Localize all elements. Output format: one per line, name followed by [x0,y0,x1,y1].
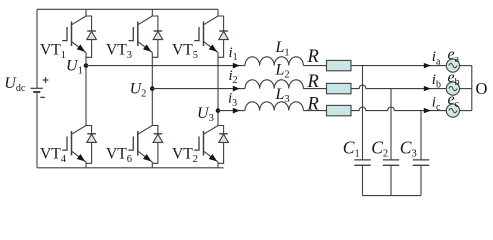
wire: capacitor C1 branch lower [362,165,364,195]
AC source e (phase 1) circle [446,59,459,72]
wire: phase line 2 resistor to source (hops over capacitor branches) [351,85,446,89]
transistor VT6: collector stub [152,126,158,164]
transistor VT1: body bar [71,22,73,47]
wire: capacitor C3 branch upper [420,111,422,160]
wire: DC negative rail (bottom) [37,167,224,169]
transistor VT3: collector diagonal [138,16,153,25]
transistor VT4: gate bar and lead [62,137,67,151]
wire: neutral bus O vertical [471,66,473,111]
transistor VT6: body bar [137,131,139,156]
AC source sine glyph [449,86,457,90]
transistor VT2: body bar [203,131,205,156]
svg-text:R: R [307,47,319,67]
inductor L2 [245,80,303,89]
resistor R (phase 1) [327,60,352,70]
wire: capacitor common bottom rail [363,195,422,197]
current arrow i_abc (load side) [424,108,431,113]
capacitor C1 plates [354,159,370,161]
wire: leg U1 emitter to - rail [85,162,87,168]
transistor VT4: collector stub [86,126,92,164]
AC source e (phase 3) circle [446,104,459,117]
transistor VT6: collector diagonal [138,126,153,135]
transistor VT5: collector diagonal [204,16,219,25]
svg-text:R: R [307,72,319,92]
battery polarity minus sign [40,96,45,98]
inductor L1 [245,57,303,66]
wire: phase line 2 from node to inductor [152,88,245,90]
AC source e (phase 2) circle [446,82,459,95]
transistor VT2: emitter arrow [209,154,217,161]
wire: capacitor C2 branch lower [390,165,392,195]
wire: leg U1 midpoint vertical (upper IGBT emitter to node and down to lower IGBT) [85,53,87,126]
transistor VT6: gate bar and lead [129,137,134,151]
battery source Udc: long positive plate [31,87,43,89]
transistor VT1: emitter arrow [77,44,85,51]
wire: phase line 1 inductor to resistor [303,65,326,67]
battery polarity plus sign [43,77,49,83]
wire: capacitor C1 branch upper [362,66,364,160]
svg-text:O: O [476,79,488,98]
resistor R (phase 3) [327,105,352,115]
current arrow i3 (inverter output) [233,108,240,114]
current arrow i1 (inverter output) [233,63,240,69]
transistor VT3: body bar [137,22,139,47]
inductor L3 [245,102,303,111]
transistor VT4: body bar [71,131,73,156]
wire: phase line 3 from node to inductor [218,110,245,112]
transistor VT3: gate bar and lead [129,27,134,41]
transistor VT5: emitter diagonal [204,42,219,53]
transistor VT2: collector stub [218,126,224,164]
transistor VT5: emitter arrow [209,44,217,51]
node U2 junction dot [150,86,155,91]
AC source sine glyph [449,108,457,112]
transistor VT1: gate bar and lead [62,27,67,41]
transistor VT1: collector stub [86,16,92,57]
wire: source to neutral bus [460,65,472,67]
wire: source to neutral bus [460,110,472,112]
transistor VT4: collector diagonal [72,126,87,135]
transistor VT4: emitter diagonal [72,151,87,162]
transistor VT3: emitter arrow [143,44,151,51]
diode across VT5 (anode bottom, cathode top) [219,30,228,32]
wire: DC positive rail (top) [37,8,218,10]
wire: leg U3 collector drop from + rail [217,9,219,16]
transistor VT4: emitter arrow [77,154,85,161]
wire: phase line 2 inductor to resistor [303,88,326,90]
transistor VT2: collector diagonal [204,126,219,135]
wire: leg U3 emitter to - rail [217,162,219,168]
diode across VT3 (anode bottom, cathode top) [154,30,163,32]
current arrow i_abc (load side) [424,63,431,68]
diode across VT6 (anode bottom, cathode top) [154,133,163,135]
wire: leg U3 midpoint vertical (upper IGBT emitter to node and down to lower IGBT) [217,53,219,126]
wire: source to neutral bus [460,88,472,90]
transistor VT5: collector stub [218,16,224,57]
wire: capacitor C3 branch lower [420,165,422,195]
capacitor C3 plates [413,159,429,161]
wire: phase line 3 resistor to source (hops over capacitor branches) [351,107,446,111]
transistor VT3: collector stub [152,16,158,57]
wire: leg U2 emitter to - rail [151,162,153,168]
node U1 junction dot [84,63,89,68]
transistor VT2: gate bar and lead [194,137,199,151]
current arrow i2 (inverter output) [233,86,240,92]
diode across VT1 (anode bottom, cathode top) [87,30,96,32]
wire: phase line 1 resistor to source (hops over capacitor branches) [351,65,446,67]
current arrow i_abc (load side) [424,86,431,91]
wire: phase line 3 inductor to resistor [303,110,326,112]
transistor VT3: emitter diagonal [138,42,153,53]
diode across VT4 (anode bottom, cathode top) [87,133,96,135]
wire: left DC link, lower segment [36,93,38,168]
transistor VT5: gate bar and lead [194,27,199,41]
wire: leg U2 collector drop from + rail [151,9,153,16]
wire: leg U1 collector drop from + rail [85,9,87,16]
node U3 junction dot [216,108,221,113]
transistor VT1: collector diagonal [72,16,87,25]
wire: capacitor C2 branch upper [390,89,392,160]
svg-text:R: R [307,95,319,115]
transistor VT2: emitter diagonal [204,151,219,162]
transistor VT5: body bar [203,22,205,47]
wire: leg U2 midpoint vertical (upper IGBT emitter to node and down to lower IGBT) [151,53,153,126]
AC source sine glyph [449,63,457,67]
wire: phase line 1 from node to inductor [86,65,245,67]
diode across VT2 (anode bottom, cathode top) [219,133,228,135]
capacitor C2 plates [383,159,399,161]
battery source Udc: short negative plate [33,91,40,93]
wire: left DC link, upper segment [36,9,38,88]
resistor R (phase 2) [327,83,352,93]
transistor VT1: emitter diagonal [72,42,87,53]
transistor VT6: emitter diagonal [138,151,153,162]
transistor VT6: emitter arrow [143,154,151,161]
